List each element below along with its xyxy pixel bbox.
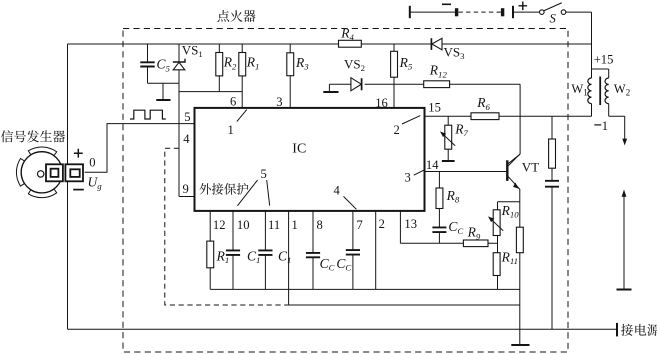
wire pin14 row xyxy=(425,171,507,173)
label 外接保护 xyxy=(199,183,248,195)
wire R2 drops xyxy=(218,44,220,92)
wire collector drop xyxy=(508,84,520,166)
svg-text:3: 3 xyxy=(405,171,411,185)
wire emitter-R10 jumper xyxy=(498,202,520,210)
wire lower bus xyxy=(289,304,520,306)
label 接电源 xyxy=(621,324,657,336)
resistor R8 xyxy=(436,188,443,209)
svg-text:1: 1 xyxy=(228,123,234,137)
node annotation ticks 5 xyxy=(238,180,270,206)
wire snubber branch xyxy=(551,116,553,329)
svg-text:2: 2 xyxy=(394,123,400,137)
label 点火器 xyxy=(217,10,255,22)
wire R9 row xyxy=(400,242,497,244)
svg-text:S: S xyxy=(550,12,557,26)
svg-text:16: 16 xyxy=(375,96,388,110)
svg-text:0: 0 xyxy=(89,155,95,169)
node annotation tick 2 xyxy=(402,116,420,124)
svg-text:4: 4 xyxy=(183,132,190,146)
wire C5-VS1 bottom xyxy=(148,82,180,84)
pulse waveform symbol xyxy=(130,110,166,119)
wire pin8 column xyxy=(312,211,314,289)
capacitor snubber xyxy=(545,181,559,187)
wire C5 drops xyxy=(147,44,149,83)
svg-text:IC: IC xyxy=(292,141,306,156)
svg-text:6: 6 xyxy=(230,95,236,109)
wire pin1 column xyxy=(288,211,290,305)
svg-text:12: 12 xyxy=(213,218,226,232)
wire emitter to ground xyxy=(519,189,521,345)
wire W2 leads xyxy=(592,69,625,116)
wire capacitor bus xyxy=(210,288,520,290)
resistor emitter series xyxy=(516,227,523,253)
wire pin15 row xyxy=(425,115,592,117)
switch S xyxy=(540,3,566,15)
wire pin10 column xyxy=(232,211,234,289)
wire battery dashed mid xyxy=(459,11,502,13)
external-protection dashed enclosure xyxy=(165,148,289,305)
node annotation tick 3 xyxy=(414,170,424,175)
svg-text:10: 10 xyxy=(237,218,250,232)
svg-text:9: 9 xyxy=(183,182,189,196)
transformer core xyxy=(599,77,601,106)
resistor R9 xyxy=(463,240,488,247)
wire left rail xyxy=(67,44,69,329)
svg-text:1: 1 xyxy=(602,119,608,133)
wire VS1 drops xyxy=(178,44,180,83)
resistor R11 xyxy=(493,253,500,276)
svg-text:VT: VT xyxy=(522,160,539,175)
svg-text:14: 14 xyxy=(426,158,439,172)
resistor R2 xyxy=(216,53,223,76)
wire W1 leads xyxy=(591,69,593,116)
svg-text:4: 4 xyxy=(334,183,341,197)
resistor R7 xyxy=(445,125,452,149)
capacitor Cc b xyxy=(346,250,360,255)
battery cells xyxy=(410,6,513,18)
net -1 xyxy=(594,124,601,126)
resistor R3 xyxy=(287,53,294,76)
zener diode VS1 xyxy=(173,59,185,70)
wire R5 to pin16 xyxy=(393,44,395,108)
svg-text:7: 7 xyxy=(357,218,363,232)
battery minus xyxy=(442,3,451,5)
svg-text:2: 2 xyxy=(379,217,385,231)
resistor snubber xyxy=(549,139,556,168)
wire R8-Cc branch xyxy=(438,172,440,244)
resistor R5 xyxy=(391,51,398,77)
capacitor Cc R8 branch xyxy=(432,227,446,232)
wire bottom power rail xyxy=(68,328,618,330)
variable arrow R7 xyxy=(440,131,455,145)
transformer primary W1 xyxy=(588,78,592,104)
diode VS2 xyxy=(351,78,362,91)
transformer secondary W2 xyxy=(605,78,609,104)
resistor R6 xyxy=(471,113,499,120)
svg-text:1: 1 xyxy=(292,218,298,232)
variable arrow R10 xyxy=(488,216,503,230)
wire HT output down arrow xyxy=(624,116,626,139)
ground G4 xyxy=(511,344,529,346)
wire spark gap up arrow xyxy=(623,196,625,290)
node annotation tick 4 xyxy=(344,196,357,209)
wire pin13 column xyxy=(399,211,401,243)
ground G1 xyxy=(162,83,164,99)
wire switch to transformer drop xyxy=(591,12,593,69)
node annotation tick 1 xyxy=(237,110,247,122)
wire pin9 column xyxy=(179,83,195,196)
wire battery link xyxy=(410,11,592,13)
generator terminal pad A xyxy=(46,164,63,181)
svg-text:11: 11 xyxy=(268,218,280,232)
svg-text:3: 3 xyxy=(276,95,282,109)
wire pin12 column xyxy=(209,211,211,289)
battery plus xyxy=(519,2,528,11)
transistor VT xyxy=(506,160,508,181)
wire pin2 column xyxy=(375,211,377,289)
svg-text:5: 5 xyxy=(184,110,190,124)
signal generator body xyxy=(16,147,62,198)
label 信号发生器 xyxy=(1,130,65,142)
svg-text:+15: +15 xyxy=(594,53,614,67)
wire R1 to pin6 xyxy=(241,44,243,108)
wire pin5 input xyxy=(85,124,195,173)
diode VS3 xyxy=(431,38,442,50)
svg-text:5: 5 xyxy=(261,167,267,181)
wire VS2-R12 row xyxy=(329,83,520,85)
generator terminal pad B xyxy=(65,164,83,181)
generator minus xyxy=(73,189,84,191)
resistor R4 xyxy=(339,40,362,47)
ground G2 xyxy=(328,84,330,91)
wire R7 drops xyxy=(447,116,449,160)
IC box U1 xyxy=(195,108,425,211)
svg-text:15: 15 xyxy=(428,101,441,115)
capacitor C5 xyxy=(140,62,154,66)
resistor R1 timing xyxy=(207,241,214,268)
generator plus xyxy=(74,149,83,158)
wire R2-R1 link xyxy=(179,91,242,93)
ground G3 xyxy=(442,160,455,162)
resistor R1 xyxy=(239,53,246,76)
wire R10-R11 link xyxy=(497,236,499,290)
capacitor C1 b xyxy=(258,250,272,255)
wire pin11 column xyxy=(264,211,266,289)
igniter dashed enclosure 点火器 xyxy=(123,29,568,353)
capacitor C1 a xyxy=(226,250,240,255)
wire top +V bus xyxy=(68,43,592,45)
terminal 接电源 xyxy=(616,323,618,337)
resistor R12 xyxy=(424,81,450,88)
wire pin7 column xyxy=(352,211,354,289)
wire R3 to pin3 xyxy=(289,44,291,108)
svg-text:13: 13 xyxy=(404,217,417,231)
svg-text:8: 8 xyxy=(317,218,323,232)
capacitor Cc a xyxy=(306,253,320,257)
resistor R10 xyxy=(493,210,500,236)
